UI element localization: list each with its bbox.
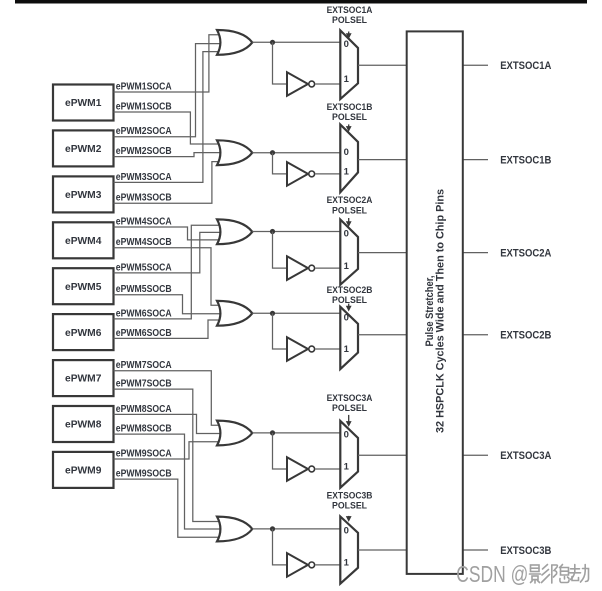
wire ePWM9SOCA bbox=[114, 442, 220, 459]
wire OR output to mux input 0, row 6 bbox=[252, 528, 340, 530]
wire OR output to mux input 0, row 5 bbox=[252, 432, 340, 434]
wire ePWM2SOCA bbox=[114, 44, 221, 137]
svg-text:0: 0 bbox=[344, 313, 349, 324]
mux EXTSOC3B bbox=[340, 517, 358, 584]
wire OR output to mux input 0, row 1 bbox=[252, 41, 340, 43]
wire EXTSOC1B output bbox=[463, 159, 488, 161]
wire inverter to mux input 1, row 4 bbox=[315, 348, 340, 350]
wire inverter to mux input 1, row 3 bbox=[315, 267, 340, 269]
block ePWM9 bbox=[53, 452, 114, 488]
wire ePWM3SOCA bbox=[114, 52, 220, 183]
svg-text:0: 0 bbox=[344, 229, 349, 240]
junction row 4 bbox=[270, 311, 275, 316]
junction row 3 bbox=[270, 229, 275, 234]
svg-text:CSDN @: CSDN @ bbox=[456, 561, 528, 587]
wire OR output to mux input 0, row 3 bbox=[252, 231, 340, 233]
svg-text:1: 1 bbox=[344, 74, 350, 85]
svg-text:POLSEL: POLSEL bbox=[332, 15, 367, 25]
svg-text:32 HSPCLK Cycles Wide and Then: 32 HSPCLK Cycles Wide and Then to Chip P… bbox=[434, 189, 446, 433]
svg-text:0: 0 bbox=[344, 526, 349, 537]
label EXTSOC2B POLSEL bbox=[327, 285, 373, 305]
svg-text:EXTSOC1B: EXTSOC1B bbox=[327, 102, 373, 112]
or-gate OR5 (SOC A group 3) bbox=[217, 421, 252, 446]
block ePWM2 bbox=[53, 130, 114, 166]
wire junction to inverter, row 5 bbox=[273, 433, 288, 469]
svg-text:EXTSOC1A: EXTSOC1A bbox=[500, 60, 551, 72]
select arrow, mux EXTSOC3B bbox=[346, 516, 352, 522]
select arrow, mux EXTSOC1B bbox=[346, 124, 352, 131]
wire EXTSOC2B output bbox=[463, 334, 488, 336]
svg-text:0: 0 bbox=[344, 430, 349, 441]
or-gate OR2 (SOC B group 1) bbox=[217, 140, 252, 165]
or-gate OR6 (SOC B group 3) bbox=[217, 517, 252, 542]
wire inverter to mux input 1, row 1 bbox=[315, 83, 340, 85]
wire mux output to pulse stretcher, row 6 bbox=[358, 549, 407, 551]
wire OR output to mux input 0, row 4 bbox=[252, 312, 340, 314]
wire EXTSOC2A output bbox=[463, 252, 488, 254]
wire junction to inverter, row 1 bbox=[273, 42, 288, 84]
svg-text:ePWM8SOCA: ePWM8SOCA bbox=[116, 404, 172, 415]
svg-text:ePWM2SOCA: ePWM2SOCA bbox=[116, 126, 172, 137]
svg-text:EXTSOC2A: EXTSOC2A bbox=[327, 195, 373, 205]
mux EXTSOC1B bbox=[340, 125, 358, 193]
svg-text:ePWM9SOCA: ePWM9SOCA bbox=[116, 448, 172, 459]
or-gate OR1 (SOC A group 1) bbox=[217, 30, 252, 55]
wire EXTSOC3A output bbox=[463, 454, 488, 456]
svg-text:POLSEL: POLSEL bbox=[332, 206, 367, 216]
svg-text:EXTSOC3A: EXTSOC3A bbox=[500, 450, 551, 462]
wire mux output to pulse stretcher, row 2 bbox=[358, 159, 407, 161]
svg-text:ePWM8SOCB: ePWM8SOCB bbox=[116, 424, 172, 435]
inverter U2 bbox=[287, 162, 315, 186]
mux EXTSOC1A bbox=[340, 30, 358, 99]
wire ePWM4SOCB bbox=[114, 248, 220, 306]
svg-text:ePWM6SOCB: ePWM6SOCB bbox=[116, 328, 172, 339]
svg-text:1: 1 bbox=[344, 462, 350, 473]
svg-text:EXTSOC3B: EXTSOC3B bbox=[327, 491, 373, 501]
wire mux output to pulse stretcher, row 4 bbox=[358, 334, 407, 336]
svg-text:1: 1 bbox=[344, 167, 350, 178]
svg-text:ePWM1SOCA: ePWM1SOCA bbox=[116, 81, 172, 92]
svg-text:EXTSOC1B: EXTSOC1B bbox=[500, 155, 551, 167]
wire mux output to pulse stretcher, row 3 bbox=[358, 252, 407, 254]
svg-text:EXTSOC2B: EXTSOC2B bbox=[327, 285, 373, 295]
label EXTSOC2A POLSEL bbox=[327, 195, 373, 216]
watermark CSDN @影隐劫 bbox=[456, 561, 588, 587]
svg-text:ePWM3: ePWM3 bbox=[65, 190, 102, 201]
wire junction to inverter, row 2 bbox=[273, 153, 288, 174]
wire ePWM6SOCA bbox=[114, 225, 220, 319]
select arrow, mux EXTSOC1A bbox=[346, 32, 352, 40]
svg-text:EXTSOC3B: EXTSOC3B bbox=[500, 545, 551, 557]
label EXTSOC3B POLSEL bbox=[327, 491, 373, 511]
wire mux output to pulse stretcher, row 1 bbox=[358, 64, 407, 66]
svg-text:ePWM9SOCB: ePWM9SOCB bbox=[116, 469, 172, 480]
select arrow, mux EXTSOC2A bbox=[346, 218, 352, 227]
block ePWM7 bbox=[53, 360, 114, 396]
svg-text:ePWM4: ePWM4 bbox=[65, 236, 102, 247]
svg-text:POLSEL: POLSEL bbox=[332, 112, 367, 122]
block ePWM8 bbox=[53, 406, 114, 442]
svg-text:ePWM9: ePWM9 bbox=[65, 466, 102, 477]
wire ePWM5SOCA bbox=[114, 232, 221, 273]
svg-text:ePWM1SOCB: ePWM1SOCB bbox=[116, 101, 172, 112]
block ePWM5 bbox=[53, 268, 114, 304]
wire ePWM8SOCB bbox=[114, 434, 221, 529]
wire EXTSOC3B output bbox=[463, 549, 488, 551]
svg-text:EXTSOC2B: EXTSOC2B bbox=[500, 330, 551, 342]
svg-text:1: 1 bbox=[344, 344, 350, 355]
junction row 5 bbox=[270, 430, 275, 435]
inverter U5 bbox=[287, 457, 315, 481]
select arrow, mux EXTSOC3A bbox=[346, 415, 352, 427]
inverter U4 bbox=[287, 337, 315, 361]
svg-text:ePWM5: ePWM5 bbox=[65, 282, 102, 293]
svg-text:1: 1 bbox=[344, 558, 350, 569]
wire junction to inverter, row 6 bbox=[273, 529, 288, 565]
wire ePWM7SOCB bbox=[114, 389, 220, 521]
wire junction to inverter, row 4 bbox=[273, 313, 288, 349]
wire ePWM4SOCA bbox=[114, 227, 220, 240]
wire ePWM7SOCA bbox=[114, 371, 220, 426]
svg-text:1: 1 bbox=[344, 261, 350, 272]
wire OR output to mux input 0, row 2 bbox=[252, 152, 340, 154]
mux EXTSOC2A bbox=[340, 220, 358, 285]
svg-text:POLSEL: POLSEL bbox=[332, 403, 367, 413]
block ePWM1 bbox=[53, 85, 114, 121]
svg-text:EXTSOC3A: EXTSOC3A bbox=[327, 393, 373, 403]
or-gate OR4 (SOC B group 2) bbox=[217, 301, 252, 326]
svg-text:ePWM6: ePWM6 bbox=[65, 328, 102, 339]
wire inverter to mux input 1, row 2 bbox=[315, 173, 340, 175]
wire inverter to mux input 1, row 6 bbox=[315, 564, 340, 566]
label EXTSOC1A POLSEL bbox=[327, 5, 373, 25]
svg-text:ePWM5SOCB: ePWM5SOCB bbox=[116, 284, 172, 295]
junction row 2 bbox=[270, 150, 275, 155]
inverter U1 bbox=[287, 72, 315, 96]
junction row 6 bbox=[270, 526, 275, 531]
inverter U6 bbox=[287, 553, 315, 577]
svg-text:POLSEL: POLSEL bbox=[332, 295, 367, 305]
svg-text:0: 0 bbox=[344, 147, 349, 158]
svg-text:POLSEL: POLSEL bbox=[332, 501, 367, 511]
wire junction to inverter, row 3 bbox=[273, 232, 288, 269]
svg-text:ePWM2SOCB: ePWM2SOCB bbox=[116, 146, 172, 157]
svg-text:ePWM3SOCA: ePWM3SOCA bbox=[116, 172, 172, 183]
wire ePWM2SOCB bbox=[114, 153, 221, 157]
select arrow, mux EXTSOC2B bbox=[346, 304, 352, 312]
wire ePWM3SOCB bbox=[114, 162, 220, 204]
or-gate OR3 (SOC A group 2) bbox=[217, 219, 252, 244]
wire ePWM9SOCB bbox=[114, 479, 220, 537]
block ePWM4 bbox=[53, 222, 114, 258]
wire ePWM1SOCA bbox=[114, 35, 220, 92]
svg-text:ePWM6SOCA: ePWM6SOCA bbox=[116, 308, 172, 319]
wire ePWM5SOCB bbox=[114, 295, 221, 314]
svg-text:ePWM1: ePWM1 bbox=[65, 98, 102, 109]
svg-text:ePWM5SOCA: ePWM5SOCA bbox=[116, 262, 172, 273]
mux EXTSOC3A bbox=[340, 421, 358, 488]
svg-text:ePWM2: ePWM2 bbox=[65, 144, 102, 155]
label EXTSOC1B POLSEL bbox=[327, 102, 373, 122]
inverter U3 bbox=[287, 256, 315, 280]
wire ePWM1SOCB bbox=[114, 112, 220, 144]
svg-text:EXTSOC2A: EXTSOC2A bbox=[500, 248, 551, 260]
wire mux output to pulse stretcher, row 5 bbox=[358, 454, 407, 456]
block ePWM6 bbox=[53, 314, 114, 350]
svg-text:ePWM7SOCA: ePWM7SOCA bbox=[116, 360, 172, 371]
svg-text:0: 0 bbox=[344, 39, 349, 50]
svg-text:ePWM4SOCA: ePWM4SOCA bbox=[116, 216, 172, 227]
svg-text:ePWM7: ePWM7 bbox=[65, 374, 102, 385]
block pulse stretcher bbox=[407, 31, 463, 574]
svg-text:ePWM4SOCB: ePWM4SOCB bbox=[116, 237, 172, 248]
wire EXTSOC1A output bbox=[463, 64, 488, 66]
svg-text:ePWM3SOCB: ePWM3SOCB bbox=[116, 193, 172, 204]
svg-text:ePWM8: ePWM8 bbox=[65, 420, 102, 431]
label EXTSOC3A POLSEL bbox=[327, 393, 373, 413]
block ePWM3 bbox=[53, 176, 114, 212]
svg-text:ePWM7SOCB: ePWM7SOCB bbox=[116, 379, 172, 390]
wire inverter to mux input 1, row 5 bbox=[315, 468, 340, 470]
wire ePWM6SOCB bbox=[114, 320, 220, 338]
junction row 1 bbox=[270, 40, 275, 45]
wire ePWM8SOCA bbox=[114, 414, 221, 433]
svg-text:EXTSOC1A: EXTSOC1A bbox=[327, 5, 373, 15]
mux EXTSOC2B bbox=[340, 307, 358, 369]
